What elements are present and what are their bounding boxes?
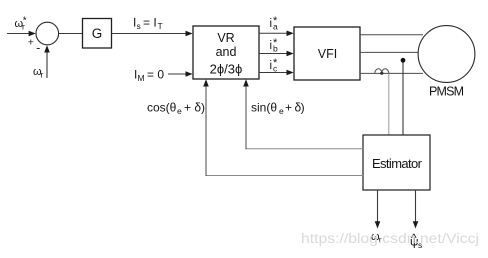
arrowhead psi_s output (413, 221, 419, 228)
svg-text:*: * (273, 37, 278, 49)
node omega_r feedback label (33, 66, 44, 80)
wire junction to G (59, 33, 83, 35)
node ib* label (270, 37, 279, 54)
arrowhead ic* (287, 70, 294, 76)
arrowhead up into junction (44, 45, 50, 52)
block VFI (294, 27, 360, 80)
svg-text:+ δ): + δ) (285, 101, 305, 115)
svg-text:= I: = I (143, 16, 157, 30)
block Estimator (363, 135, 430, 190)
svg-text:+ δ): + δ) (184, 101, 205, 115)
arrowhead into VR (Is wire) (186, 31, 193, 37)
summing junction (36, 22, 59, 45)
wire CT tail down to estimator (388, 73, 390, 135)
svg-text:i: i (270, 60, 273, 72)
svg-text:s: s (137, 21, 141, 31)
node Is = IT label (133, 16, 163, 32)
wire omega_r feedback into junction (46, 50, 48, 78)
wire phase c VFI to PMSM (360, 72, 423, 74)
current sensor CT on phase c (375, 69, 389, 75)
node psi_s hat label (410, 231, 422, 250)
svg-text:r: r (41, 70, 44, 80)
svg-text:*: * (273, 57, 278, 69)
svg-text:sin(θ: sin(θ (251, 101, 277, 115)
svg-text:2ϕ/3ϕ: 2ϕ/3ϕ (210, 62, 243, 77)
wire cos feedback (vertical up) (205, 84, 207, 176)
svg-text:VR: VR (217, 31, 234, 45)
block VR and 2phi/3phi (193, 26, 259, 79)
wire cos feedback estimator to VR (horizontal) (206, 175, 364, 177)
svg-text:and: and (216, 45, 237, 59)
wire phase a VFI to PMSM (360, 34, 423, 36)
node IM = 0 label (134, 68, 164, 84)
wire ic* VR to VFI (259, 72, 288, 74)
wire G to VR (112, 33, 188, 35)
junction dot voltage tap (401, 58, 406, 63)
svg-text:VFI: VFI (318, 47, 337, 61)
svg-text:Estimator: Estimator (372, 156, 423, 171)
node sin(theta_e + delta) label (251, 101, 305, 117)
svg-text:-: - (36, 41, 40, 55)
arrowhead cos into VR bottom (203, 79, 209, 86)
PMSM motor (418, 26, 475, 99)
svg-text:*: * (23, 16, 27, 27)
node cos(theta_e + delta) label (147, 101, 205, 117)
wire sin feedback estimator to VR (horizontal) (246, 148, 364, 150)
wire estimator output omega_r (377, 190, 379, 223)
svg-text:M: M (138, 73, 145, 83)
svg-text:PMSM: PMSM (429, 85, 464, 99)
svg-text:cos(θ: cos(θ (147, 101, 177, 115)
block G (83, 19, 112, 49)
wire phase b VFI to PMSM (360, 51, 419, 53)
svg-text:G: G (92, 26, 103, 41)
arrowhead ib* (287, 51, 294, 57)
node ia* label (270, 15, 279, 32)
arrowhead omega_r output (375, 221, 381, 228)
wire estimator output psi_s (415, 190, 417, 223)
arrowhead ia* (287, 31, 294, 37)
svg-text:+: + (28, 37, 34, 49)
wire sin feedback (vertical up) (245, 84, 247, 149)
arrowhead into summing junction (29, 31, 36, 37)
wire ib* VR to VFI (259, 53, 288, 55)
svg-text:https://blog.csdn.net/Viccj: https://blog.csdn.net/Viccj (301, 231, 479, 246)
node omega_r* reference speed label (15, 16, 27, 32)
wire voltage tap down to estimator (402, 63, 404, 136)
svg-text:i: i (270, 18, 273, 30)
svg-text:T: T (158, 21, 163, 31)
wire IM to VR (168, 73, 187, 75)
svg-text:e: e (177, 106, 182, 116)
node omega_r estimated label (371, 231, 382, 245)
wire ia* VR to VFI (259, 32, 288, 34)
wire input to summing junction (7, 33, 30, 35)
svg-text:e: e (279, 106, 284, 116)
svg-text:i: i (270, 40, 273, 52)
svg-text:*: * (273, 15, 278, 27)
arrowhead sin into VR bottom (243, 79, 249, 86)
arrowhead into VR (IM wire) (186, 71, 193, 77)
svg-text:= 0: = 0 (147, 68, 164, 82)
node ic* label (270, 57, 279, 74)
